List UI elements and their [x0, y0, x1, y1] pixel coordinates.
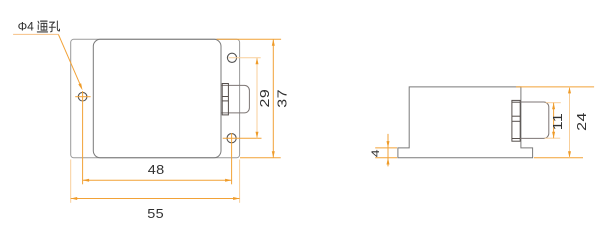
11 arrows	[552, 103, 555, 110]
4 ext top	[375, 147, 397, 149]
55 ext right (pale)	[239, 160, 241, 203]
hand-drawn CJK: kong (hole)	[49, 21, 59, 32]
24 arrows	[568, 87, 571, 94]
48 arrows	[83, 179, 90, 182]
left hole	[78, 92, 87, 101]
right view top ext	[516, 86, 594, 88]
37 ext top	[217, 38, 282, 40]
svg-text:11: 11	[551, 113, 565, 131]
leader diagonal	[58, 34, 80, 85]
svg-text:37: 37	[276, 89, 290, 108]
bottom-right hole centerline down	[231, 133, 233, 184]
11 tick bottom (pale)	[545, 137, 561, 139]
flange plate	[71, 39, 240, 158]
29 arrows	[256, 58, 259, 65]
bottom right hole	[227, 134, 236, 143]
11 dim line	[553, 103, 555, 139]
svg-text:24: 24	[575, 112, 589, 131]
svg-text:Φ4: Φ4	[18, 20, 35, 34]
4 ext bottom	[375, 157, 397, 159]
11 tick top (pale)	[546, 102, 561, 104]
body	[93, 39, 221, 158]
svg-text:29: 29	[259, 89, 273, 108]
29 dim line (pale)	[256, 58, 258, 138]
connector rounded body (left view)	[221, 85, 249, 113]
left hole crosshair h	[75, 96, 90, 98]
bottom-right hole ext h	[223, 137, 262, 139]
top right hole	[227, 53, 236, 62]
leader underline	[13, 33, 58, 35]
svg-text:55: 55	[147, 207, 164, 221]
outline	[398, 87, 533, 158]
svg-text:48: 48	[148, 163, 165, 177]
37 ext bottom	[240, 157, 281, 159]
55 arrows	[71, 197, 78, 200]
top-right hole ext (pale)	[229, 57, 261, 59]
connector rounded body (side)	[520, 102, 549, 138]
37 dim line	[272, 39, 274, 158]
4 arrows (outside)	[387, 141, 390, 148]
55 dim line	[71, 198, 240, 200]
leader arrow	[78, 83, 82, 90]
24 dim line (pale)	[569, 87, 571, 158]
connector stack (left view)	[222, 84, 228, 115]
37 arrows	[272, 39, 275, 46]
4 dim line	[387, 134, 389, 167]
right view bottom ext	[534, 157, 583, 159]
connector stack (side)	[512, 100, 520, 141]
hand-drawn CJK: tong (through)	[37, 21, 47, 32]
svg-text:4: 4	[369, 149, 381, 157]
55 ext left (pale)	[70, 160, 72, 203]
left hole centerline down	[82, 91, 84, 184]
48 dim line	[83, 179, 232, 181]
